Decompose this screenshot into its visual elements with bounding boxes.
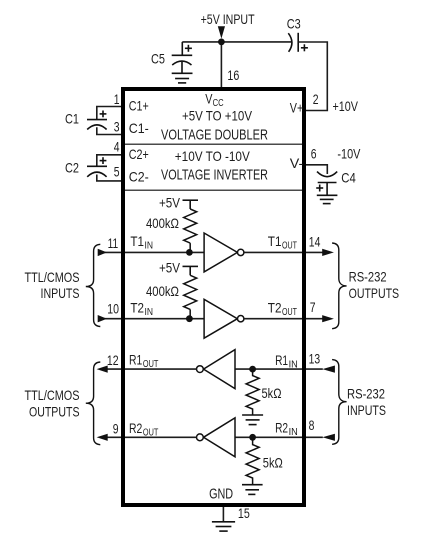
section separator inverter — [125, 189, 302, 191]
svg-text:8: 8 — [309, 417, 315, 433]
svg-text:TTL/CMOS: TTL/CMOS — [25, 269, 80, 285]
wire pin6 V- to C4 — [304, 165, 327, 174]
svg-text:3: 3 — [114, 119, 120, 135]
arrow pin13 — [322, 366, 335, 373]
svg-text:V+: V+ — [290, 99, 304, 115]
svg-text:C4: C4 — [341, 169, 356, 185]
svg-text:9: 9 — [113, 421, 119, 437]
capacitor C5 — [172, 42, 193, 73]
wire pin11 T1 input — [100, 251, 204, 253]
svg-text:OUT: OUT — [143, 358, 159, 370]
svg-text:C1-: C1- — [129, 120, 149, 136]
svg-text:+5V: +5V — [159, 194, 181, 210]
svg-text:+5V TO +10V: +5V TO +10V — [182, 107, 253, 123]
wire T1 output pin14 — [244, 251, 331, 253]
svg-text:C1+: C1+ — [129, 98, 149, 114]
arrow pin8 — [322, 434, 335, 441]
svg-text:16: 16 — [227, 67, 239, 83]
svg-text:+5V INPUT: +5V INPUT — [201, 11, 255, 27]
brace RS-232 inputs — [332, 360, 347, 445]
svg-text:RS-232: RS-232 — [349, 269, 387, 285]
svg-text:10: 10 — [107, 301, 119, 317]
wire pin3 to C1- — [97, 127, 123, 134]
resistor R 400k T1 — [184, 209, 197, 243]
ground R2 5k — [242, 485, 263, 495]
ground R1 5k — [242, 415, 263, 425]
node +5V junction — [218, 39, 225, 46]
op-amp T2 driver — [204, 299, 237, 338]
svg-text:400kΩ: 400kΩ — [146, 283, 179, 299]
svg-text:1: 1 — [114, 91, 120, 107]
svg-text:IN: IN — [289, 426, 298, 438]
svg-text:12: 12 — [107, 352, 119, 368]
svg-text:OUT: OUT — [143, 427, 159, 439]
svg-text:C5: C5 — [151, 50, 165, 66]
resistor R 400k T2 — [184, 275, 197, 309]
wire pin15 GND stub — [222, 505, 224, 522]
svg-text:11: 11 — [108, 235, 119, 251]
svg-text:13: 13 — [309, 351, 321, 367]
svg-text:VOLTAGE INVERTER: VOLTAGE INVERTER — [161, 168, 268, 184]
wire 400k to T2 input — [189, 309, 191, 318]
node T1 input junction — [186, 249, 193, 256]
brace TTL/CMOS outputs — [86, 362, 101, 445]
svg-text:OUTPUTS: OUTPUTS — [29, 403, 80, 419]
svg-text:5kΩ: 5kΩ — [262, 385, 282, 401]
capacitor C3 — [288, 33, 308, 52]
svg-text:OUTPUTS: OUTPUTS — [349, 285, 400, 301]
wire pin5 to C2- — [97, 175, 123, 181]
svg-text:INPUTS: INPUTS — [347, 402, 386, 418]
wire pin13 R1 input — [235, 368, 323, 370]
capacitor C1 — [87, 111, 107, 130]
svg-text:VOLTAGE DOUBLER: VOLTAGE DOUBLER — [161, 128, 268, 144]
svg-text:15: 15 — [238, 505, 250, 521]
wire R2 output pin9 — [100, 436, 197, 438]
svg-text:-10V: -10V — [337, 146, 361, 162]
svg-text:2: 2 — [313, 91, 319, 107]
ground C5 — [172, 73, 193, 83]
svg-text:T1: T1 — [130, 233, 144, 249]
power +5V rail T2 — [183, 266, 199, 275]
svg-text:TTL/CMOS: TTL/CMOS — [25, 387, 80, 403]
svg-text:R1: R1 — [129, 352, 142, 368]
svg-text:C2: C2 — [65, 160, 79, 176]
svg-text:IN: IN — [145, 240, 154, 252]
op-amp R1 receiver — [204, 350, 236, 389]
svg-text:C2-: C2- — [129, 168, 149, 184]
svg-text:C1: C1 — [65, 111, 79, 127]
capacitor C4 — [316, 172, 337, 196]
op-amp R2 receiver — [204, 418, 236, 457]
wire pin8 R2 input — [235, 436, 323, 438]
IC U1 body — [123, 89, 304, 505]
svg-text:T1: T1 — [268, 233, 282, 249]
svg-text:IN: IN — [289, 359, 298, 371]
wire +5V input bus — [182, 41, 291, 43]
arrow pin14 — [322, 249, 334, 256]
svg-text:GND: GND — [209, 487, 233, 503]
svg-text:14: 14 — [309, 234, 321, 250]
resistor R 5k R1 — [246, 369, 259, 415]
section separator doubler — [125, 143, 302, 145]
capacitor C2 — [87, 157, 107, 177]
+5V INPUT arrow — [218, 26, 225, 38]
op-amp T1 driver — [204, 233, 237, 272]
wire pin16 Vcc stub — [220, 42, 222, 90]
svg-text:T2: T2 — [130, 299, 144, 315]
wire pin4 to C2+ — [97, 155, 123, 166]
svg-text:R1: R1 — [275, 352, 288, 368]
svg-text:400kΩ: 400kΩ — [146, 215, 179, 231]
wire 400k to T1 input — [189, 243, 191, 252]
svg-text:R2: R2 — [275, 420, 288, 436]
resistor R 5k R2 — [246, 437, 259, 484]
power +5V rail T1 — [183, 200, 199, 209]
svg-text:INPUTS: INPUTS — [41, 285, 80, 301]
svg-text:OUT: OUT — [282, 306, 297, 318]
svg-text:RS-232: RS-232 — [347, 386, 385, 402]
svg-text:6: 6 — [311, 146, 317, 162]
svg-text:R2: R2 — [129, 420, 142, 436]
wire C3 to V+ pin2 — [298, 42, 327, 111]
brace TTL/CMOS inputs — [86, 244, 101, 326]
svg-text:+10V: +10V — [333, 98, 359, 114]
wire R1 output pin12 — [100, 368, 197, 370]
node R2 input junction — [249, 434, 256, 441]
brace RS-232 outputs — [332, 243, 347, 329]
node R1 input junction — [249, 366, 256, 373]
svg-text:T2: T2 — [268, 299, 282, 315]
svg-text:4: 4 — [114, 139, 120, 155]
svg-text:V-: V- — [290, 155, 304, 171]
svg-text:OUT: OUT — [282, 240, 297, 252]
arrow pin11 — [98, 249, 107, 256]
svg-text:7: 7 — [310, 299, 316, 315]
wire pin10 T2 input — [100, 318, 204, 320]
svg-text:5: 5 — [114, 164, 120, 180]
svg-text:IN: IN — [145, 306, 154, 318]
arrow pin10 — [98, 315, 107, 322]
svg-text:+5V: +5V — [159, 260, 181, 276]
node T2 input junction — [186, 315, 193, 322]
arrow pin9 — [97, 434, 108, 441]
svg-text:C3: C3 — [287, 16, 301, 32]
wire pin1 to C1+ — [97, 107, 123, 120]
wire T2 output pin7 — [244, 318, 331, 320]
ground C4 — [317, 195, 338, 203]
svg-text:C2+: C2+ — [129, 146, 149, 162]
svg-text:5kΩ: 5kΩ — [263, 455, 283, 471]
ground pin15 — [212, 522, 235, 531]
arrow pin7 — [322, 315, 334, 322]
arrow pin12 — [97, 366, 108, 373]
svg-text:+10V TO -10V: +10V TO -10V — [175, 148, 251, 164]
